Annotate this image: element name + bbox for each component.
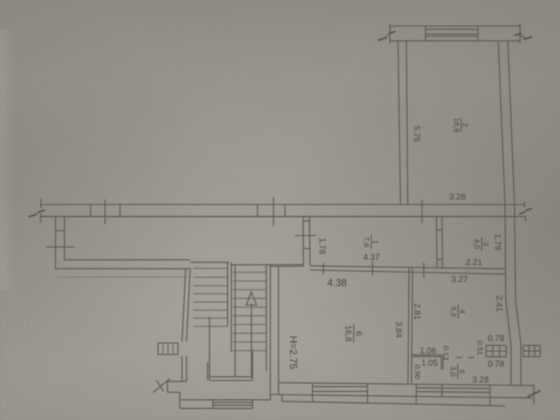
svg-text:1.06: 1.06	[420, 345, 437, 355]
svg-text:1: 1	[371, 240, 380, 244]
end cut line at bottom right wall	[533, 384, 535, 404]
svg-text:18,9: 18,9	[452, 118, 461, 133]
room label 1/7.8	[362, 235, 380, 249]
rung in stair hall left wall	[56, 230, 65, 232]
corridor right end caps and break	[524, 202, 526, 208]
bottom wall inner line	[279, 383, 534, 386]
svg-text:H=2.75: H=2.75	[287, 336, 298, 370]
room label 4/9.3	[449, 305, 467, 319]
svg-text:3.28: 3.28	[449, 191, 466, 201]
radiator box (stair bay)	[158, 343, 178, 355]
interior wall band top line	[310, 266, 506, 269]
vent box A	[486, 345, 506, 356]
svg-text:3: 3	[482, 242, 491, 246]
diagonal tick at wall end	[528, 391, 541, 397]
room 2 top wall	[390, 25, 520, 27]
break mark right end of room 2 top wall	[519, 24, 521, 44]
svg-text:2.81: 2.81	[413, 303, 423, 320]
stair left flight treads	[193, 268, 227, 326]
room 1 left wall	[302, 217, 305, 266]
stairwell top edge left	[190, 261, 229, 263]
stair hall top wall inner line	[65, 259, 191, 261]
svg-text:1.78: 1.78	[318, 238, 328, 255]
wall joint ticks middle group	[257, 205, 259, 218]
wall stub 0.13	[440, 355, 442, 370]
svg-text:2.21: 2.21	[466, 257, 483, 267]
stair bay right connection	[253, 399, 271, 401]
stair bay bottom steps	[168, 380, 187, 382]
svg-text:2: 2	[461, 123, 470, 127]
svg-text:0.78: 0.78	[488, 333, 505, 343]
corridor top wall line	[40, 204, 525, 206]
svg-text:0.90: 0.90	[413, 365, 422, 380]
tick on stair hall left wall	[46, 246, 75, 248]
room label 2/18.9	[452, 118, 470, 133]
svg-text:4.38: 4.38	[327, 278, 347, 289]
room 4 / room 6 dividing wall	[408, 268, 409, 384]
svg-text:0.13: 0.13	[442, 346, 451, 361]
svg-text:7,8: 7,8	[362, 237, 371, 247]
svg-text:3.84: 3.84	[394, 321, 404, 338]
door jamb rungs in room 3 left wall	[437, 229, 443, 231]
svg-text:5: 5	[458, 369, 467, 373]
corridor left end cap	[40, 199, 42, 209]
door jamb rungs in room 1 left wall	[303, 220, 310, 222]
window right section (bottom)	[415, 384, 417, 397]
break mark left end of room 2 top wall	[389, 24, 391, 44]
stair central stringer lines	[227, 262, 229, 326]
svg-text:6: 6	[354, 331, 364, 336]
break cross on stair bay corner	[153, 379, 170, 393]
stair bay left wall	[182, 269, 186, 342]
window room 6 (bottom)	[312, 383, 314, 396]
right exterior wall	[505, 205, 511, 346]
interior wall band bottom line	[310, 270, 506, 274]
bottom wall outer line	[270, 395, 532, 398]
svg-text:3.27: 3.27	[451, 274, 468, 284]
svg-text:0.78: 0.78	[488, 358, 505, 368]
dim tick 1.78	[295, 235, 316, 237]
svg-text:4.37: 4.37	[363, 252, 380, 262]
room 6 left wall	[269, 265, 271, 401]
plumbing chase walls	[510, 345, 512, 385]
window in room 2 top wall	[425, 26, 427, 41]
room 2 left wall	[398, 41, 401, 205]
stair hall left wall	[55, 217, 57, 270]
wall joint ticks left group	[90, 205, 92, 218]
svg-text:16,8: 16,8	[344, 325, 354, 342]
svg-text:9,3: 9,3	[449, 306, 458, 316]
svg-text:5.75: 5.75	[412, 126, 422, 143]
stair direction arrow	[250, 303, 252, 377]
balcony slab edge along bottom	[282, 401, 505, 406]
stair hall top wall third line	[57, 276, 189, 278]
room label 3/4.0	[473, 237, 491, 251]
stair hall top wall outer line	[56, 268, 191, 270]
svg-text:1.79: 1.79	[493, 234, 503, 251]
svg-text:2.41: 2.41	[495, 295, 505, 312]
dim tick on wall band	[423, 263, 425, 279]
room label 5/3.0	[449, 365, 467, 379]
dim tick at 4.37 start	[322, 263, 324, 275]
svg-text:3.28: 3.28	[472, 374, 489, 384]
window stair bay (bottom)	[212, 400, 214, 409]
room 5 top wall	[413, 354, 442, 356]
room 3 left wall	[436, 217, 439, 269]
stair right edge line	[265, 265, 267, 372]
room label 6/16.8	[344, 325, 365, 343]
dim tick room 6 top wall	[372, 262, 374, 276]
svg-text:4,0: 4,0	[473, 239, 482, 249]
corridor bottom wall line	[40, 216, 526, 218]
door opening dashes	[455, 357, 462, 359]
junction step near room 6 left	[281, 395, 283, 402]
svg-text:4: 4	[458, 309, 467, 313]
svg-text:0.51: 0.51	[476, 341, 485, 356]
room 2 right wall	[498, 41, 505, 205]
stair bay wall below radiator	[181, 356, 183, 381]
svg-text:3,0: 3,0	[449, 366, 458, 376]
break mark left end of corridor	[38, 210, 45, 212]
wall joint tick near room 2	[421, 200, 423, 224]
stair lower landing	[209, 317, 211, 381]
stairwell top edge right / step wall to room 6	[231, 264, 304, 266]
svg-text:1.05: 1.05	[421, 358, 438, 368]
vent box B	[523, 345, 540, 356]
stair right flight treads	[233, 272, 267, 350]
